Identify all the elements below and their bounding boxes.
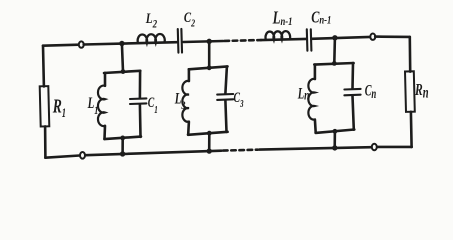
capacitor Cn-1 — [307, 29, 312, 51]
svg-text:Cп: Cп — [365, 81, 377, 101]
wire tank2 bottom stem — [208, 133, 211, 151]
wire tank1 bottom stem — [121, 138, 124, 154]
wire bottom rail right segment — [377, 146, 411, 149]
terminal T2 (top output) — [370, 34, 375, 40]
wire tank1 right leg upper — [139, 71, 142, 98]
wire tank2 right leg lower — [225, 101, 226, 132]
node tank1 bottom junction — [120, 136, 125, 141]
svg-text:L1: L1 — [87, 94, 99, 118]
svg-text:R1: R1 — [52, 95, 66, 121]
wire tank3 bottom stem — [333, 131, 336, 148]
terminal T4 (bottom output) — [372, 144, 377, 151]
wire bottom rail T4 to dashes — [260, 147, 372, 149]
wire bottom rail middle-left segment — [86, 151, 222, 156]
wire tank3 right leg lower — [353, 96, 354, 130]
svg-text:Lп-1: Lп-1 — [272, 9, 293, 29]
wire tank3 left leg lower — [314, 120, 317, 133]
node B3 junction — [332, 145, 337, 150]
wire bottom rail left segment — [45, 156, 79, 158]
svg-text:Rп: Rп — [414, 81, 428, 101]
terminal T3 (bottom input) — [80, 152, 85, 159]
wire tank3 right leg upper — [351, 63, 354, 88]
wire top rail under Ln-1 — [261, 39, 306, 40]
node tank2 top junction — [207, 65, 212, 70]
wire tank3 bottom bar — [316, 130, 355, 133]
wire tank3 left leg upper — [314, 65, 317, 80]
wire tank2 top stem — [208, 41, 211, 67]
node J2 junction — [207, 39, 212, 44]
capacitor C1 — [130, 98, 146, 104]
wire top rail right segment — [375, 35, 410, 38]
node tank3 top junction — [332, 61, 337, 66]
capacitor Cn — [344, 89, 360, 95]
wire tank3 top bar — [314, 63, 353, 65]
node B1 junction — [120, 151, 125, 156]
svg-text:Lп: Lп — [297, 85, 310, 103]
capacitor C2 — [178, 29, 182, 53]
wire tank2 left leg lower — [187, 122, 190, 135]
wire tank1 right leg lower — [139, 105, 142, 137]
wire top rail C2 to J2 — [184, 41, 224, 42]
terminal T1 (top input) — [79, 41, 84, 47]
wire tank2 bottom bar — [188, 132, 228, 135]
wire tank1 left leg upper — [104, 73, 107, 86]
wire tank2 top bar — [189, 66, 228, 69]
svg-text:L2: L2 — [145, 9, 158, 30]
wire bottom rail dashed continuation — [223, 148, 258, 152]
inductor Ln-1 — [265, 31, 290, 40]
node J3 junction — [332, 35, 337, 40]
wire top rail Cn-1 to T2 — [311, 37, 370, 39]
inductor L2 — [137, 34, 164, 43]
node B2 junction — [207, 148, 212, 153]
svg-text:C3: C3 — [234, 89, 244, 111]
wire right vertical lower — [410, 112, 413, 147]
wire top rail to L2 (baseline under coil) — [84, 42, 177, 44]
node J1 junction — [119, 41, 124, 46]
inductor L1 — [98, 86, 105, 127]
svg-text:Cп-1: Cп-1 — [311, 9, 331, 27]
wire top rail dashed continuation — [225, 39, 262, 43]
svg-text:C2: C2 — [184, 8, 195, 30]
svg-text:C1: C1 — [148, 94, 158, 117]
inductor L3 — [182, 81, 189, 122]
wire tank1 left leg lower — [103, 126, 106, 139]
wire tank2 right leg upper — [225, 67, 227, 94]
wire tank1 top bar — [104, 71, 140, 73]
wire tank1 bottom bar — [104, 137, 141, 140]
resistor R1 — [40, 86, 50, 126]
node tank2 bottom junction — [207, 131, 212, 136]
inductor Ln — [308, 79, 315, 120]
wire tank1 top stem — [122, 44, 123, 72]
wire tank2 left leg upper — [188, 69, 191, 81]
wire right vertical upper — [408, 37, 411, 72]
capacitor C3 — [217, 94, 233, 100]
wire tank3 top stem — [333, 38, 336, 63]
resistor Rn — [405, 71, 415, 112]
wire top rail left segment — [43, 45, 79, 46]
wire left vertical lower — [44, 126, 47, 157]
wire left vertical upper — [42, 46, 46, 87]
node tank3 bottom junction — [333, 129, 338, 134]
node tank1 top junction — [121, 69, 126, 74]
